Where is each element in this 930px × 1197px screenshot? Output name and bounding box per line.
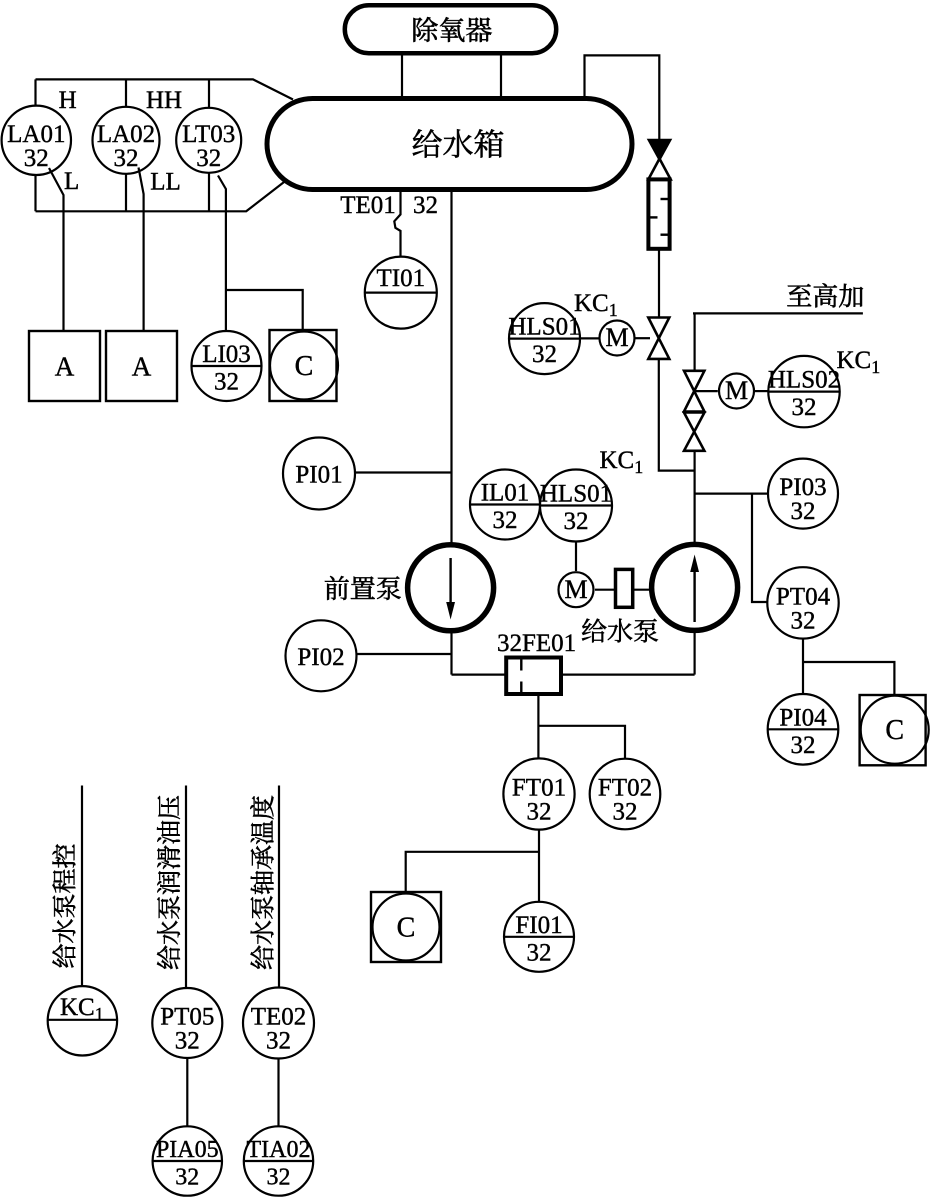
wire TE02-TIA02 — [277, 1059, 279, 1127]
label 前置泵 — [325, 576, 401, 600]
wire PT05-PIA05 — [186, 1058, 188, 1127]
svg-text:32: 32 — [527, 939, 552, 966]
svg-text:M: M — [725, 376, 748, 405]
wire LA02 tail — [139, 168, 144, 332]
wire pump2 outlet — [693, 633, 695, 675]
instrument PT04/32 — [767, 567, 838, 638]
svg-text:LT03: LT03 — [182, 121, 235, 148]
wire computer branch — [406, 852, 539, 892]
instrument PT05/32 — [152, 988, 222, 1058]
wire deaerator-tank right — [500, 55, 502, 99]
svg-text:32: 32 — [792, 394, 817, 421]
wire deaerator-tank left — [401, 55, 403, 99]
label 除氧器 — [413, 17, 491, 42]
wire V2 down to pump — [693, 451, 695, 543]
wire LT03 legs — [208, 79, 210, 211]
wire PT04-C branch — [803, 662, 894, 695]
pump feedwater 给水泵 — [652, 544, 738, 630]
label 给水箱 — [413, 129, 504, 158]
instrument FI01/32 — [504, 902, 574, 972]
control valve (filled) — [648, 140, 671, 161]
svg-text:32: 32 — [493, 507, 518, 534]
svg-text:32: 32 — [175, 1028, 200, 1055]
motor M2 — [719, 374, 754, 409]
svg-text:32: 32 — [114, 145, 139, 172]
instrument IL01/32 — [470, 470, 540, 540]
svg-text:32: 32 — [267, 1165, 291, 1191]
svg-text:32: 32 — [791, 498, 816, 525]
alarm box A1 — [29, 331, 100, 401]
wire PI01 — [355, 471, 452, 473]
wire M1-V1 — [635, 337, 650, 339]
svg-text:M: M — [564, 575, 587, 604]
instrument PI03/32 — [768, 459, 838, 529]
wire main downcomer — [450, 190, 452, 544]
svg-text:A: A — [132, 352, 152, 382]
wire FE01 down — [537, 694, 539, 758]
svg-text:C: C — [397, 913, 416, 944]
valve V1 (motorized) — [648, 318, 669, 359]
motor M1 — [600, 321, 635, 356]
wire V1 to corner — [659, 359, 695, 471]
svg-text:LI03: LI03 — [202, 341, 251, 368]
wire M2-HLS02 — [755, 390, 768, 392]
svg-text:32: 32 — [413, 192, 438, 219]
wire PT04 down — [802, 639, 804, 694]
wire LT03 tail — [218, 176, 226, 332]
instrument TIA02/32 — [244, 1126, 313, 1195]
valve V2 (double, motorized) — [684, 371, 704, 412]
wire PI03 — [695, 493, 768, 495]
motor M3 — [559, 572, 594, 607]
wire M3-coupling — [595, 589, 616, 591]
svg-text:32: 32 — [24, 145, 49, 172]
instrument PI04/32 — [768, 694, 839, 765]
svg-text:FT02: FT02 — [598, 775, 652, 802]
svg-text:32FE01: 32FE01 — [497, 630, 576, 657]
vessel feedwater tank 给水箱 — [267, 99, 632, 190]
rotameter tube — [648, 179, 669, 248]
svg-text:A: A — [55, 352, 75, 382]
wire pump1 outlet — [450, 633, 452, 675]
label 至高加 — [787, 283, 863, 307]
svg-text:PIA05: PIA05 — [156, 1137, 219, 1163]
wire coupling-pump — [633, 589, 650, 591]
instrument TE02/32 — [243, 988, 314, 1059]
wire rotameter to valve V1 — [658, 249, 660, 318]
svg-text:TI01: TI01 — [376, 265, 425, 292]
instrument LI03/32 — [192, 331, 262, 401]
controller KC1 — [48, 986, 117, 1055]
svg-text:L: L — [64, 168, 79, 195]
svg-text:FT01: FT01 — [512, 775, 566, 802]
instrument PIA05/32 — [153, 1126, 222, 1195]
wire tank top to valve — [585, 55, 660, 141]
wire to HP heater — [693, 312, 863, 314]
svg-text:32: 32 — [791, 607, 816, 634]
svg-text:TE02: TE02 — [251, 1004, 307, 1031]
instrument FT02/32 — [590, 759, 661, 830]
svg-text:KC1: KC1 — [837, 347, 881, 377]
svg-text:PT05: PT05 — [160, 1004, 214, 1031]
computer C (level) — [270, 330, 337, 401]
svg-text:HLS01: HLS01 — [508, 314, 580, 341]
coupling — [616, 569, 633, 607]
svg-text:32: 32 — [527, 799, 552, 826]
label 给水泵润滑油压 — [157, 796, 180, 969]
wire HLS01-M1 — [580, 337, 599, 339]
instrument PI01 — [283, 438, 355, 510]
svg-text:FI01: FI01 — [515, 912, 562, 939]
svg-text:C: C — [295, 351, 314, 382]
svg-text:32: 32 — [791, 732, 816, 759]
svg-text:LL: LL — [150, 169, 181, 196]
label 给水泵 — [582, 619, 658, 643]
svg-text:PI02: PI02 — [297, 644, 344, 671]
wire lube oil pressure signal — [185, 786, 187, 989]
instrument PI02 — [286, 620, 357, 691]
wire LA01 tail — [49, 168, 64, 331]
svg-text:IL01: IL01 — [481, 480, 530, 507]
svg-text:H: H — [59, 87, 77, 114]
wire program control signal — [81, 786, 83, 987]
svg-text:32: 32 — [266, 1028, 291, 1055]
label 给水泵轴承温度 — [250, 796, 273, 969]
computer C (flow) — [371, 892, 441, 962]
svg-text:HLS01: HLS01 — [540, 481, 612, 508]
instrument LT03/32 — [176, 108, 241, 173]
svg-text:C: C — [885, 715, 904, 746]
wire PI03-PT04 branch — [752, 494, 767, 602]
svg-text:HH: HH — [146, 87, 182, 114]
wire TE01 with break — [394, 190, 400, 257]
wire HLS01-M3 — [575, 542, 577, 572]
svg-text:LA02: LA02 — [97, 121, 155, 148]
label 给水泵程控 — [52, 844, 75, 967]
wire PI02 — [357, 653, 452, 655]
wire rail bottom — [36, 181, 287, 212]
instrument TI01 — [365, 257, 437, 329]
instrument HLS02/32 (valve V2) — [768, 356, 839, 427]
instrument HLS01/32 (valve V1) — [509, 303, 580, 374]
wire LI03 tee — [226, 290, 303, 330]
wire rail top — [36, 79, 294, 99]
wire lower pipe — [452, 673, 695, 675]
wire HP line down to V2 — [693, 313, 695, 371]
svg-text:PI03: PI03 — [779, 474, 826, 501]
svg-text:M: M — [605, 323, 628, 352]
vessel deaerator 除氧器 — [345, 5, 556, 53]
instrument LA02/32 — [93, 107, 160, 174]
computer C (pressure) — [860, 695, 926, 765]
svg-text:32: 32 — [196, 145, 221, 172]
instrument LA01/32 — [2, 106, 71, 175]
pump booster 前置泵 — [408, 545, 494, 631]
svg-text:PI04: PI04 — [779, 704, 827, 731]
svg-text:32: 32 — [613, 799, 638, 826]
wire V2-M2 — [694, 390, 717, 392]
alarm box A2 — [106, 331, 177, 401]
svg-text:KC1: KC1 — [600, 447, 644, 477]
svg-text:KC1: KC1 — [574, 290, 618, 320]
svg-text:32: 32 — [564, 508, 589, 535]
wire LA01 legs — [34, 79, 36, 211]
wire bearing temp signal — [278, 786, 280, 989]
wire LA02 legs — [125, 79, 127, 211]
svg-text:TIA02: TIA02 — [247, 1137, 311, 1163]
wire FT01 down — [538, 830, 540, 902]
svg-text:TE01: TE01 — [340, 192, 396, 219]
svg-text:PI01: PI01 — [295, 462, 342, 489]
svg-text:32: 32 — [214, 369, 239, 396]
svg-text:PT04: PT04 — [776, 583, 831, 610]
svg-text:32: 32 — [532, 341, 557, 368]
svg-text:32: 32 — [175, 1165, 199, 1191]
instrument HLS01/32 (pump) — [540, 470, 612, 542]
svg-text:HLS02: HLS02 — [768, 367, 840, 394]
svg-text:LA01: LA01 — [7, 121, 65, 148]
instrument FT01/32 — [503, 758, 574, 829]
wire FT02 branch — [538, 726, 625, 759]
